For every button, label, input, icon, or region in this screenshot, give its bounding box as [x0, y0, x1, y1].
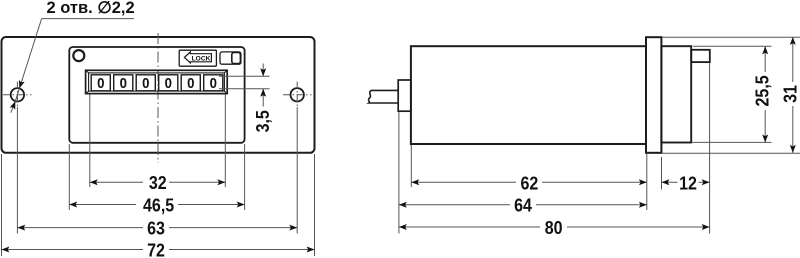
- dim 64 line: [399, 204, 647, 206]
- dim 46,5 extension lines: [68, 144, 70, 210]
- reset knob inner: [232, 52, 241, 63]
- dim 63 line: [17, 227, 297, 229]
- reset button outline: [220, 52, 241, 64]
- digit strip inner box: [89, 73, 225, 91]
- hole label leader through circle: [15, 88, 19, 101]
- dim 25,5 line upper: [764, 46, 766, 72]
- dim 80 line: [399, 226, 710, 228]
- dim 31 extension lines: [662, 36, 800, 38]
- dim 31 line upper: [792, 37, 794, 82]
- digit cell 3: [136, 75, 155, 91]
- dim 72 line: [2, 249, 315, 251]
- dim 62 extension lines: [410, 145, 412, 187]
- hole label leader diagonal: [19, 19, 41, 89]
- svg-text:62: 62: [520, 172, 538, 193]
- right mounting hole: [291, 88, 304, 101]
- svg-text:LOCK: LOCK: [192, 55, 211, 62]
- svg-text:25,5: 25,5: [751, 75, 772, 107]
- svg-text:3,5: 3,5: [252, 110, 273, 133]
- svg-text:0: 0: [187, 74, 194, 91]
- digit cell 1: [91, 75, 110, 91]
- bevel diagonals: [86, 70, 89, 73]
- dim 3,5 upper arrow: [262, 64, 264, 77]
- dim 32 extension lines: [89, 95, 91, 188]
- dim 46,5 line: [69, 204, 244, 206]
- dim 72 extension lines: [1, 154, 3, 256]
- svg-text:0: 0: [210, 74, 217, 91]
- dim 62 line: [411, 181, 647, 183]
- collar: [398, 80, 411, 111]
- dim 32 line: [90, 181, 226, 183]
- right hole vertical centerline / extension line for 63: [296, 82, 298, 108]
- shaft with break: [368, 90, 398, 103]
- svg-text:72: 72: [147, 239, 165, 258]
- dim 31 line lower: [792, 106, 794, 153]
- panel outline: [2, 37, 315, 153]
- dim 12 line: [662, 181, 710, 183]
- digit cell 6: [204, 75, 223, 91]
- svg-text:0: 0: [165, 74, 172, 91]
- left hole horizontal centerline: [3, 94, 32, 96]
- digit cell 4: [159, 75, 178, 91]
- right hole horizontal centerline: [283, 94, 312, 96]
- left mounting hole: [11, 88, 24, 101]
- flange: [646, 37, 661, 153]
- digit strip outer box: [86, 70, 228, 93]
- svg-text:64: 64: [514, 195, 532, 216]
- counter face rectangle: [69, 47, 244, 143]
- dim 64 extension line: [398, 112, 400, 234]
- svg-text:80: 80: [545, 217, 563, 238]
- LOCK arrow shape: [184, 52, 211, 63]
- LOCK button outline: [179, 50, 216, 66]
- panel vertical centerline: [157, 33, 159, 163]
- svg-text:46,5: 46,5: [143, 194, 175, 215]
- svg-text:2 отв. ∅2,2: 2 отв. ∅2,2: [47, 0, 135, 17]
- small circle on face: [73, 50, 84, 61]
- digit cell 2: [114, 75, 133, 91]
- svg-text:63: 63: [147, 218, 165, 239]
- hole label leader lower arrow: [11, 101, 15, 112]
- svg-text:31: 31: [779, 85, 800, 103]
- dim 12 extension lines: [661, 157, 663, 190]
- svg-text:0: 0: [120, 74, 127, 91]
- left hole vertical centerline / extension line for 63: [16, 82, 18, 108]
- rear housing: [661, 46, 691, 142]
- dim 25,5 extension lines: [693, 45, 772, 47]
- dim 3,5 lower arrow: [262, 89, 264, 107]
- svg-text:12: 12: [679, 172, 697, 193]
- svg-text:0: 0: [97, 74, 104, 91]
- dim 3,5 extension lines: [219, 75, 270, 77]
- hole label leader horizontal: [42, 18, 134, 20]
- terminal box: [691, 50, 710, 62]
- digit cell 5: [181, 75, 200, 91]
- svg-text:32: 32: [149, 172, 167, 193]
- main body: [411, 46, 646, 144]
- svg-text:0: 0: [142, 74, 149, 91]
- dim 25,5 line lower: [764, 110, 766, 142]
